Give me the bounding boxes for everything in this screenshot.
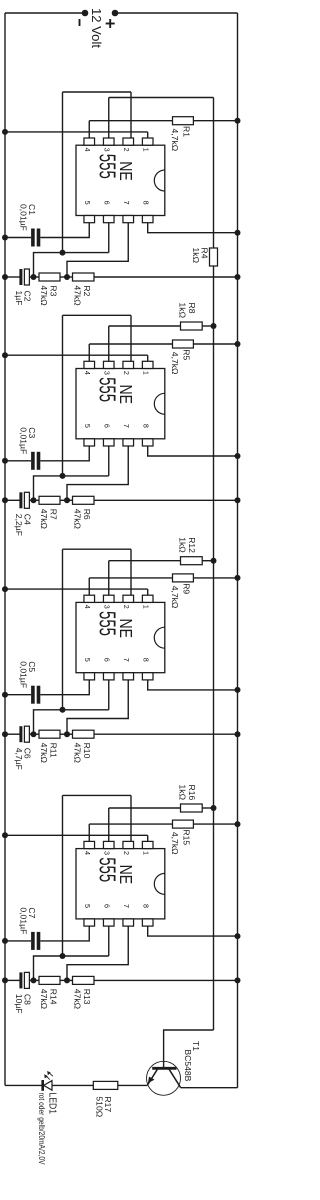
wire IC1 pin6 stub: [108, 223, 110, 253]
svg-text:6: 6: [102, 424, 111, 428]
notch of IC3: [154, 627, 165, 648]
IC4 pin 2 box: [123, 841, 134, 848]
IC2 pin 7 box: [123, 439, 134, 446]
node T1 junction (pins 2+6): [60, 250, 66, 256]
junction C7 on minus rail: [2, 938, 8, 944]
IC1 pin 2 box: [123, 138, 134, 145]
svg-text:R9: R9: [181, 583, 191, 594]
junction C1 on minus rail: [2, 235, 8, 241]
wire IC3 pin3 stub: [108, 561, 110, 596]
svg-text:5: 5: [83, 201, 92, 205]
svg-text:6: 6: [102, 201, 111, 205]
wire IC1 pin3 stub: [108, 98, 110, 139]
wire discharge node to R10: [67, 733, 73, 735]
wire IC2 pin4 to R5: [89, 343, 172, 345]
svg-text:R6: R6: [82, 509, 92, 520]
IC3 pin 5 box: [84, 673, 95, 680]
capacitor C8 plus plate: [24, 972, 29, 988]
junction C3 on minus rail: [2, 458, 8, 464]
IC1 pin 5 box: [84, 216, 95, 223]
wire IC4 pin3 stub: [108, 808, 110, 841]
wire IC2 pin8 to plus rail: [148, 446, 238, 456]
wire IC3 pin6 down to timing node: [34, 710, 109, 734]
IC4 pin 7 box: [123, 919, 134, 926]
svg-text:4,7kΩ: 4,7kΩ: [170, 586, 180, 609]
wire plus terminal to plus rail: [115, 12, 238, 14]
wire C2 to timing node: [29, 276, 33, 278]
wire IC4 pin3 riser: [109, 807, 181, 809]
LED LED1: [43, 1080, 52, 1091]
junction elko column on minus rail stage 1: [2, 274, 8, 280]
svg-text:4,7kΩ: 4,7kΩ: [170, 832, 180, 855]
capacitor C1 plate b: [31, 229, 35, 247]
junction R5 on plus rail: [235, 341, 241, 347]
plus sign: [109, 19, 111, 28]
wire IC4 pin4 to R15: [89, 823, 172, 825]
wire plus rail (+12V): [237, 13, 239, 1088]
svg-text:5: 5: [83, 424, 92, 428]
junction R1 on plus rail: [235, 118, 241, 124]
IC3 pin 1 box: [142, 595, 153, 602]
svg-text:3: 3: [102, 605, 111, 609]
IC1 pin 3 box: [103, 138, 114, 145]
wire IC3 pin7 to discharge node: [67, 680, 128, 734]
wire IC1 pin3 up to summing line: [109, 97, 214, 99]
junction elko column on minus rail stage 2: [2, 497, 8, 503]
svg-text:1kΩ: 1kΩ: [178, 303, 188, 319]
wire IC1 pin6 down to timing node: [34, 253, 109, 277]
wire IC4 pin8 to plus rail: [148, 926, 238, 936]
IC1 pin 6 box: [103, 216, 114, 223]
terminal plus (12V): [112, 10, 119, 17]
svg-text:7: 7: [122, 658, 131, 662]
capacitor C5 plate a: [37, 686, 41, 704]
capacitor C7 plate b: [31, 932, 35, 950]
junction IC4 GND on minus rail: [2, 832, 8, 838]
svg-text:4,7kΩ: 4,7kΩ: [170, 129, 180, 152]
svg-text:4: 4: [83, 148, 92, 152]
wire R10 to plus rail: [94, 733, 238, 735]
wire IC2 pin2 riser: [63, 314, 132, 316]
junction IC3 GND on minus rail: [2, 586, 8, 592]
wire IC4 pin2 riser: [63, 794, 132, 796]
op-amp U2 body (NE 555 timer IC2): [76, 369, 165, 439]
resistor R15 4.7k: [173, 820, 194, 828]
IC3 pin 7 box: [123, 673, 134, 680]
wire IC4 trigger line to node T4: [62, 795, 64, 956]
node T3 junction (pins 2+6): [60, 707, 66, 713]
wire minus terminal to minus rail: [5, 12, 85, 14]
wire IC3 pin2 stub: [130, 549, 132, 595]
resistor R1 4.7k: [173, 117, 194, 125]
op-amp U4 body (NE 555 timer IC4): [76, 849, 165, 919]
resistor R17 510: [93, 1081, 118, 1089]
capacitor C1 plate a: [37, 229, 41, 247]
capacitor C6 minus plate: [19, 726, 22, 742]
svg-text:47kΩ: 47kΩ: [39, 509, 49, 530]
wire C8 to timing node: [29, 979, 33, 981]
node T4 junction (pins 2+6): [60, 953, 66, 959]
junction IC2 GND on minus rail: [2, 352, 8, 358]
wire IC3 pin3 riser: [109, 560, 181, 562]
junction timing node stage 3: [31, 731, 37, 737]
svg-text:7: 7: [122, 424, 131, 428]
junction discharge node stage 1: [64, 274, 70, 280]
svg-text:7: 7: [122, 904, 131, 908]
capacitor C2 plus plate: [24, 269, 29, 285]
wire R16 to summing line: [202, 807, 213, 809]
svg-text:R1: R1: [181, 126, 191, 137]
IC1 pin 4 box: [84, 138, 95, 145]
svg-text:7: 7: [122, 201, 131, 205]
wire R2 to plus rail: [94, 276, 238, 278]
notch of IC1: [154, 170, 165, 191]
wire timing node to R3: [34, 276, 40, 278]
wire minus rail to C4: [5, 499, 20, 501]
svg-text:1µF: 1µF: [14, 291, 24, 306]
wire discharge node to R13: [67, 979, 73, 981]
svg-text:12 Volt: 12 Volt: [89, 8, 104, 48]
junction IC4 pin8 on plus rail: [235, 933, 241, 939]
junction discharge node stage 3: [64, 731, 70, 737]
wire summing line right part: [213, 266, 215, 1030]
svg-text:LED1: LED1: [47, 1093, 58, 1115]
wire IC1 trigger line to node T1: [62, 92, 64, 253]
svg-text:1: 1: [141, 148, 150, 152]
resistor R12 1k: [181, 557, 203, 565]
wire timing node to R7: [34, 499, 40, 501]
svg-text:47kΩ: 47kΩ: [39, 989, 49, 1010]
svg-text:0,01µF: 0,01µF: [18, 907, 28, 934]
wire minus rail to C6: [5, 733, 20, 735]
svg-text:47kΩ: 47kΩ: [39, 743, 49, 764]
wire IC3 pin1 stub: [147, 589, 149, 595]
svg-text:2,2µF: 2,2µF: [14, 514, 24, 536]
wire IC4 pin1 stub: [147, 835, 149, 841]
wire IC2 pin6 down to timing node: [34, 476, 109, 500]
svg-text:6: 6: [102, 658, 111, 662]
junction R12 on summing line: [211, 558, 217, 564]
svg-text:4: 4: [83, 371, 92, 375]
minus sign: [79, 19, 81, 26]
wire timing node to R14: [34, 979, 40, 981]
svg-text:47kΩ: 47kΩ: [73, 743, 83, 764]
svg-text:8: 8: [141, 904, 150, 908]
capacitor C4 plus plate: [24, 492, 29, 508]
junction discharge node stage 2: [64, 497, 70, 503]
svg-text:R10: R10: [82, 743, 92, 759]
resistor R16 1k: [181, 804, 203, 812]
wire IC1 pin2 stub: [130, 92, 132, 138]
IC4 pin 6 box: [103, 919, 114, 926]
svg-text:47kΩ: 47kΩ: [73, 285, 83, 306]
svg-text:R2: R2: [82, 285, 92, 296]
wire IC4 pin1 (GND) to minus rail: [5, 834, 148, 836]
wire IC1 pin5 to C1: [40, 223, 89, 238]
svg-text:47kΩ: 47kΩ: [39, 285, 49, 306]
svg-text:47kΩ: 47kΩ: [73, 989, 83, 1010]
svg-text:3: 3: [102, 851, 111, 855]
wire T1 collector to plus rail: [181, 1087, 238, 1089]
svg-text:0,01µF: 0,01µF: [18, 661, 28, 688]
svg-text:rot oder gelb/20mA/2,0V: rot oder gelb/20mA/2,0V: [37, 1093, 47, 1165]
IC3 pin 3 box: [103, 595, 114, 602]
svg-text:1: 1: [141, 851, 150, 855]
resistor R10 47k: [73, 730, 95, 738]
junction IC2 pin8 on plus rail: [235, 453, 241, 459]
svg-text:R15: R15: [181, 829, 191, 845]
svg-text:3: 3: [102, 148, 111, 152]
IC2 pin 6 box: [103, 439, 114, 446]
svg-text:510Ω: 510Ω: [95, 1096, 105, 1117]
wire IC1 pin7 to discharge node: [67, 223, 128, 277]
svg-text:1kΩ: 1kΩ: [191, 248, 201, 264]
svg-text:47kΩ: 47kΩ: [73, 509, 83, 530]
wire IC4 pin6 down to timing node: [34, 956, 109, 980]
resistor R13 47k: [73, 976, 95, 984]
svg-text:4: 4: [83, 605, 92, 609]
wire IC1 pin2 riser: [63, 91, 132, 93]
resistor R6 47k: [73, 496, 95, 504]
wire discharge node to R2: [67, 276, 73, 278]
svg-text:3: 3: [102, 371, 111, 375]
IC2 pin 4 box: [84, 361, 95, 368]
junction timing node stage 2: [31, 497, 37, 503]
resistor R7 47k: [39, 496, 60, 504]
svg-text:2: 2: [122, 605, 131, 609]
wire IC2 pin3 stub: [108, 326, 110, 361]
capacitor C3 plate b: [31, 452, 35, 470]
junction R13 on plus rail: [235, 977, 241, 983]
wire IC2 pin7 to discharge node: [67, 446, 128, 500]
wire R17 through LED1 to minus rail: [5, 1084, 93, 1086]
IC1 pin 7 box: [123, 216, 134, 223]
wire IC4 pin7 to discharge node: [67, 926, 128, 980]
svg-text:5: 5: [83, 658, 92, 662]
resistor R5 4.7k: [173, 340, 194, 348]
svg-text:R5: R5: [181, 349, 191, 360]
svg-text:555: 555: [95, 857, 121, 882]
wire IC1 pin1 (GND) to minus rail: [5, 131, 148, 133]
IC4 pin 3 box: [103, 841, 114, 848]
svg-text:555: 555: [95, 611, 121, 636]
svg-text:4,7kΩ: 4,7kΩ: [170, 352, 180, 375]
svg-text:0,01µF: 0,01µF: [18, 204, 28, 231]
svg-text:R13: R13: [82, 989, 92, 1005]
wire IC1 pin4 stub: [88, 121, 90, 138]
wire IC3 pin5 to C5: [40, 680, 89, 695]
wire IC1 pin4 to R1: [89, 120, 172, 122]
IC3 pin 8 box: [142, 673, 153, 680]
resistor R8 1k: [181, 322, 203, 330]
wire IC4 pin6 stub: [108, 926, 110, 956]
junction R8 on summing line: [211, 323, 217, 329]
wire IC3 trigger line to node T3: [62, 549, 64, 710]
junction discharge node stage 4: [64, 977, 70, 983]
wire IC3 pin6 stub: [108, 680, 110, 710]
wire minus rail to C2: [5, 276, 20, 278]
svg-text:555: 555: [95, 377, 121, 402]
op-amp U3 body (NE 555 timer IC3): [76, 602, 165, 672]
resistor R2 47k: [73, 273, 95, 281]
wire IC4 pin2 stub: [130, 795, 132, 841]
IC1 pin 1 box: [142, 138, 153, 145]
wire IC3 pin4 stub: [88, 578, 90, 595]
svg-text:4: 4: [83, 851, 92, 855]
wire C6 to timing node: [29, 733, 33, 735]
junction IC1 pin8 on plus rail: [235, 230, 241, 236]
junction C5 on minus rail: [2, 692, 8, 698]
wire R7 to discharge node: [60, 499, 67, 501]
wire R14 to discharge node: [60, 979, 67, 981]
svg-text:BC548B: BC548B: [183, 1049, 193, 1081]
wire summing line left part: [213, 98, 215, 249]
wire IC2 trigger line to node T2: [62, 315, 64, 476]
junction timing node stage 4: [31, 977, 37, 983]
capacitor C4 minus plate: [19, 492, 22, 508]
notch of IC4: [154, 873, 165, 894]
wire summing line to T1 base: [164, 1030, 214, 1068]
node T2 junction (pins 2+6): [60, 473, 66, 479]
IC3 pin 6 box: [103, 673, 114, 680]
transistor T1 BC548B: [147, 1061, 181, 1095]
wire IC2 pin4 stub: [88, 344, 90, 361]
junction IC3 pin8 on plus rail: [235, 687, 241, 693]
junction R16 on summing line: [211, 805, 217, 811]
wire C4 to timing node: [29, 499, 33, 501]
wire R9 to plus rail: [193, 577, 237, 579]
resistor R11 47k: [39, 730, 60, 738]
svg-text:8: 8: [141, 424, 150, 428]
wire IC2 pin2 stub: [130, 315, 132, 361]
wire R13 to plus rail: [94, 979, 238, 981]
wire IC3 pin4 to R9: [89, 577, 172, 579]
capacitor C7 plate a: [37, 932, 41, 950]
IC1 pin 8 box: [142, 216, 153, 223]
capacitor C2 minus plate: [19, 269, 22, 285]
svg-text:4,7µF: 4,7µF: [14, 748, 24, 770]
wire IC2 pin3 riser: [109, 325, 181, 327]
wire C3 to minus rail: [5, 460, 31, 462]
IC3 pin 2 box: [123, 595, 134, 602]
wire T1 emitter to R17: [118, 1084, 148, 1086]
terminal minus (12V): [82, 10, 89, 17]
wire R11 to discharge node: [60, 733, 67, 735]
junction elko column on minus rail stage 3: [2, 731, 8, 737]
wire IC4 pin4 stub: [88, 824, 90, 841]
junction elko column on minus rail stage 4: [2, 977, 8, 983]
junction IC1 GND on minus rail: [2, 129, 8, 135]
wire R12 to summing line: [202, 560, 213, 562]
wire R5 to plus rail: [193, 343, 237, 345]
svg-text:0,01µF: 0,01µF: [18, 427, 28, 454]
wire IC2 pin6 stub: [108, 446, 110, 476]
IC4 pin 5 box: [84, 919, 95, 926]
op-amp U1 body (NE 555 timer IC1): [76, 145, 165, 215]
svg-text:2: 2: [122, 148, 131, 152]
IC4 pin 1 box: [142, 841, 153, 848]
IC4 pin 4 box: [84, 841, 95, 848]
wire minus rail to C8: [5, 979, 20, 981]
wire C1 to minus rail: [5, 237, 31, 239]
wire timing node to R11: [34, 733, 40, 735]
wire R3 to discharge node: [60, 276, 67, 278]
wire IC4 pin5 to C7: [40, 926, 89, 941]
IC2 pin 5 box: [84, 439, 95, 446]
IC4 pin 8 box: [142, 919, 153, 926]
IC2 pin 8 box: [142, 439, 153, 446]
wire C7 to minus rail: [5, 940, 31, 942]
junction R9 on plus rail: [235, 575, 241, 581]
svg-text:2: 2: [122, 851, 131, 855]
svg-text:1kΩ: 1kΩ: [178, 537, 188, 553]
svg-text:555: 555: [95, 154, 121, 179]
wire R6 to plus rail: [94, 499, 238, 501]
wire IC2 pin5 to C3: [40, 446, 89, 461]
junction timing node stage 1: [31, 274, 37, 280]
wire R1 to plus rail: [193, 120, 237, 122]
wire R8 to summing line: [202, 325, 213, 327]
wire IC3 pin1 (GND) to minus rail: [5, 588, 148, 590]
notch of IC2: [154, 393, 165, 414]
wire IC1 pin8 to plus rail: [148, 223, 238, 233]
wire R15 to plus rail: [193, 823, 237, 825]
IC3 pin 4 box: [84, 595, 95, 602]
wire discharge node to R6: [67, 499, 73, 501]
wire IC2 pin1 (GND) to minus rail: [5, 354, 148, 356]
wire IC3 pin8 to plus rail: [148, 680, 238, 690]
svg-text:1: 1: [141, 371, 150, 375]
resistor R3 47k: [39, 273, 60, 281]
wire minus rail (0V): [4, 13, 6, 1085]
svg-text:5: 5: [83, 904, 92, 908]
junction R6 on plus rail: [235, 497, 241, 503]
capacitor C5 plate b: [31, 686, 35, 704]
resistor R9 4.7k: [173, 574, 194, 582]
svg-text:8: 8: [141, 201, 150, 205]
junction R15 on plus rail: [235, 821, 241, 827]
wire C5 to minus rail: [5, 694, 31, 696]
junction R2 on plus rail: [235, 274, 241, 280]
svg-text:8: 8: [141, 658, 150, 662]
resistor R14 47k: [39, 976, 60, 984]
capacitor C3 plate a: [37, 452, 41, 470]
svg-text:6: 6: [102, 904, 111, 908]
svg-text:1kΩ: 1kΩ: [178, 785, 188, 801]
resistor R4 1k (inline): [210, 248, 218, 266]
IC2 pin 1 box: [142, 361, 153, 368]
wire IC3 pin2 riser: [63, 548, 132, 550]
capacitor C6 plus plate: [24, 726, 29, 742]
svg-text:1: 1: [141, 605, 150, 609]
capacitor C8 minus plate: [19, 972, 22, 988]
wire IC1 pin1 stub: [147, 132, 149, 138]
IC2 pin 2 box: [123, 361, 134, 368]
svg-text:10µF: 10µF: [14, 994, 24, 1014]
svg-text:2: 2: [122, 371, 131, 375]
junction R10 on plus rail: [235, 731, 241, 737]
LED1 light arrows: [44, 1071, 53, 1080]
IC2 pin 3 box: [103, 361, 114, 368]
wire IC2 pin1 stub: [147, 355, 149, 361]
